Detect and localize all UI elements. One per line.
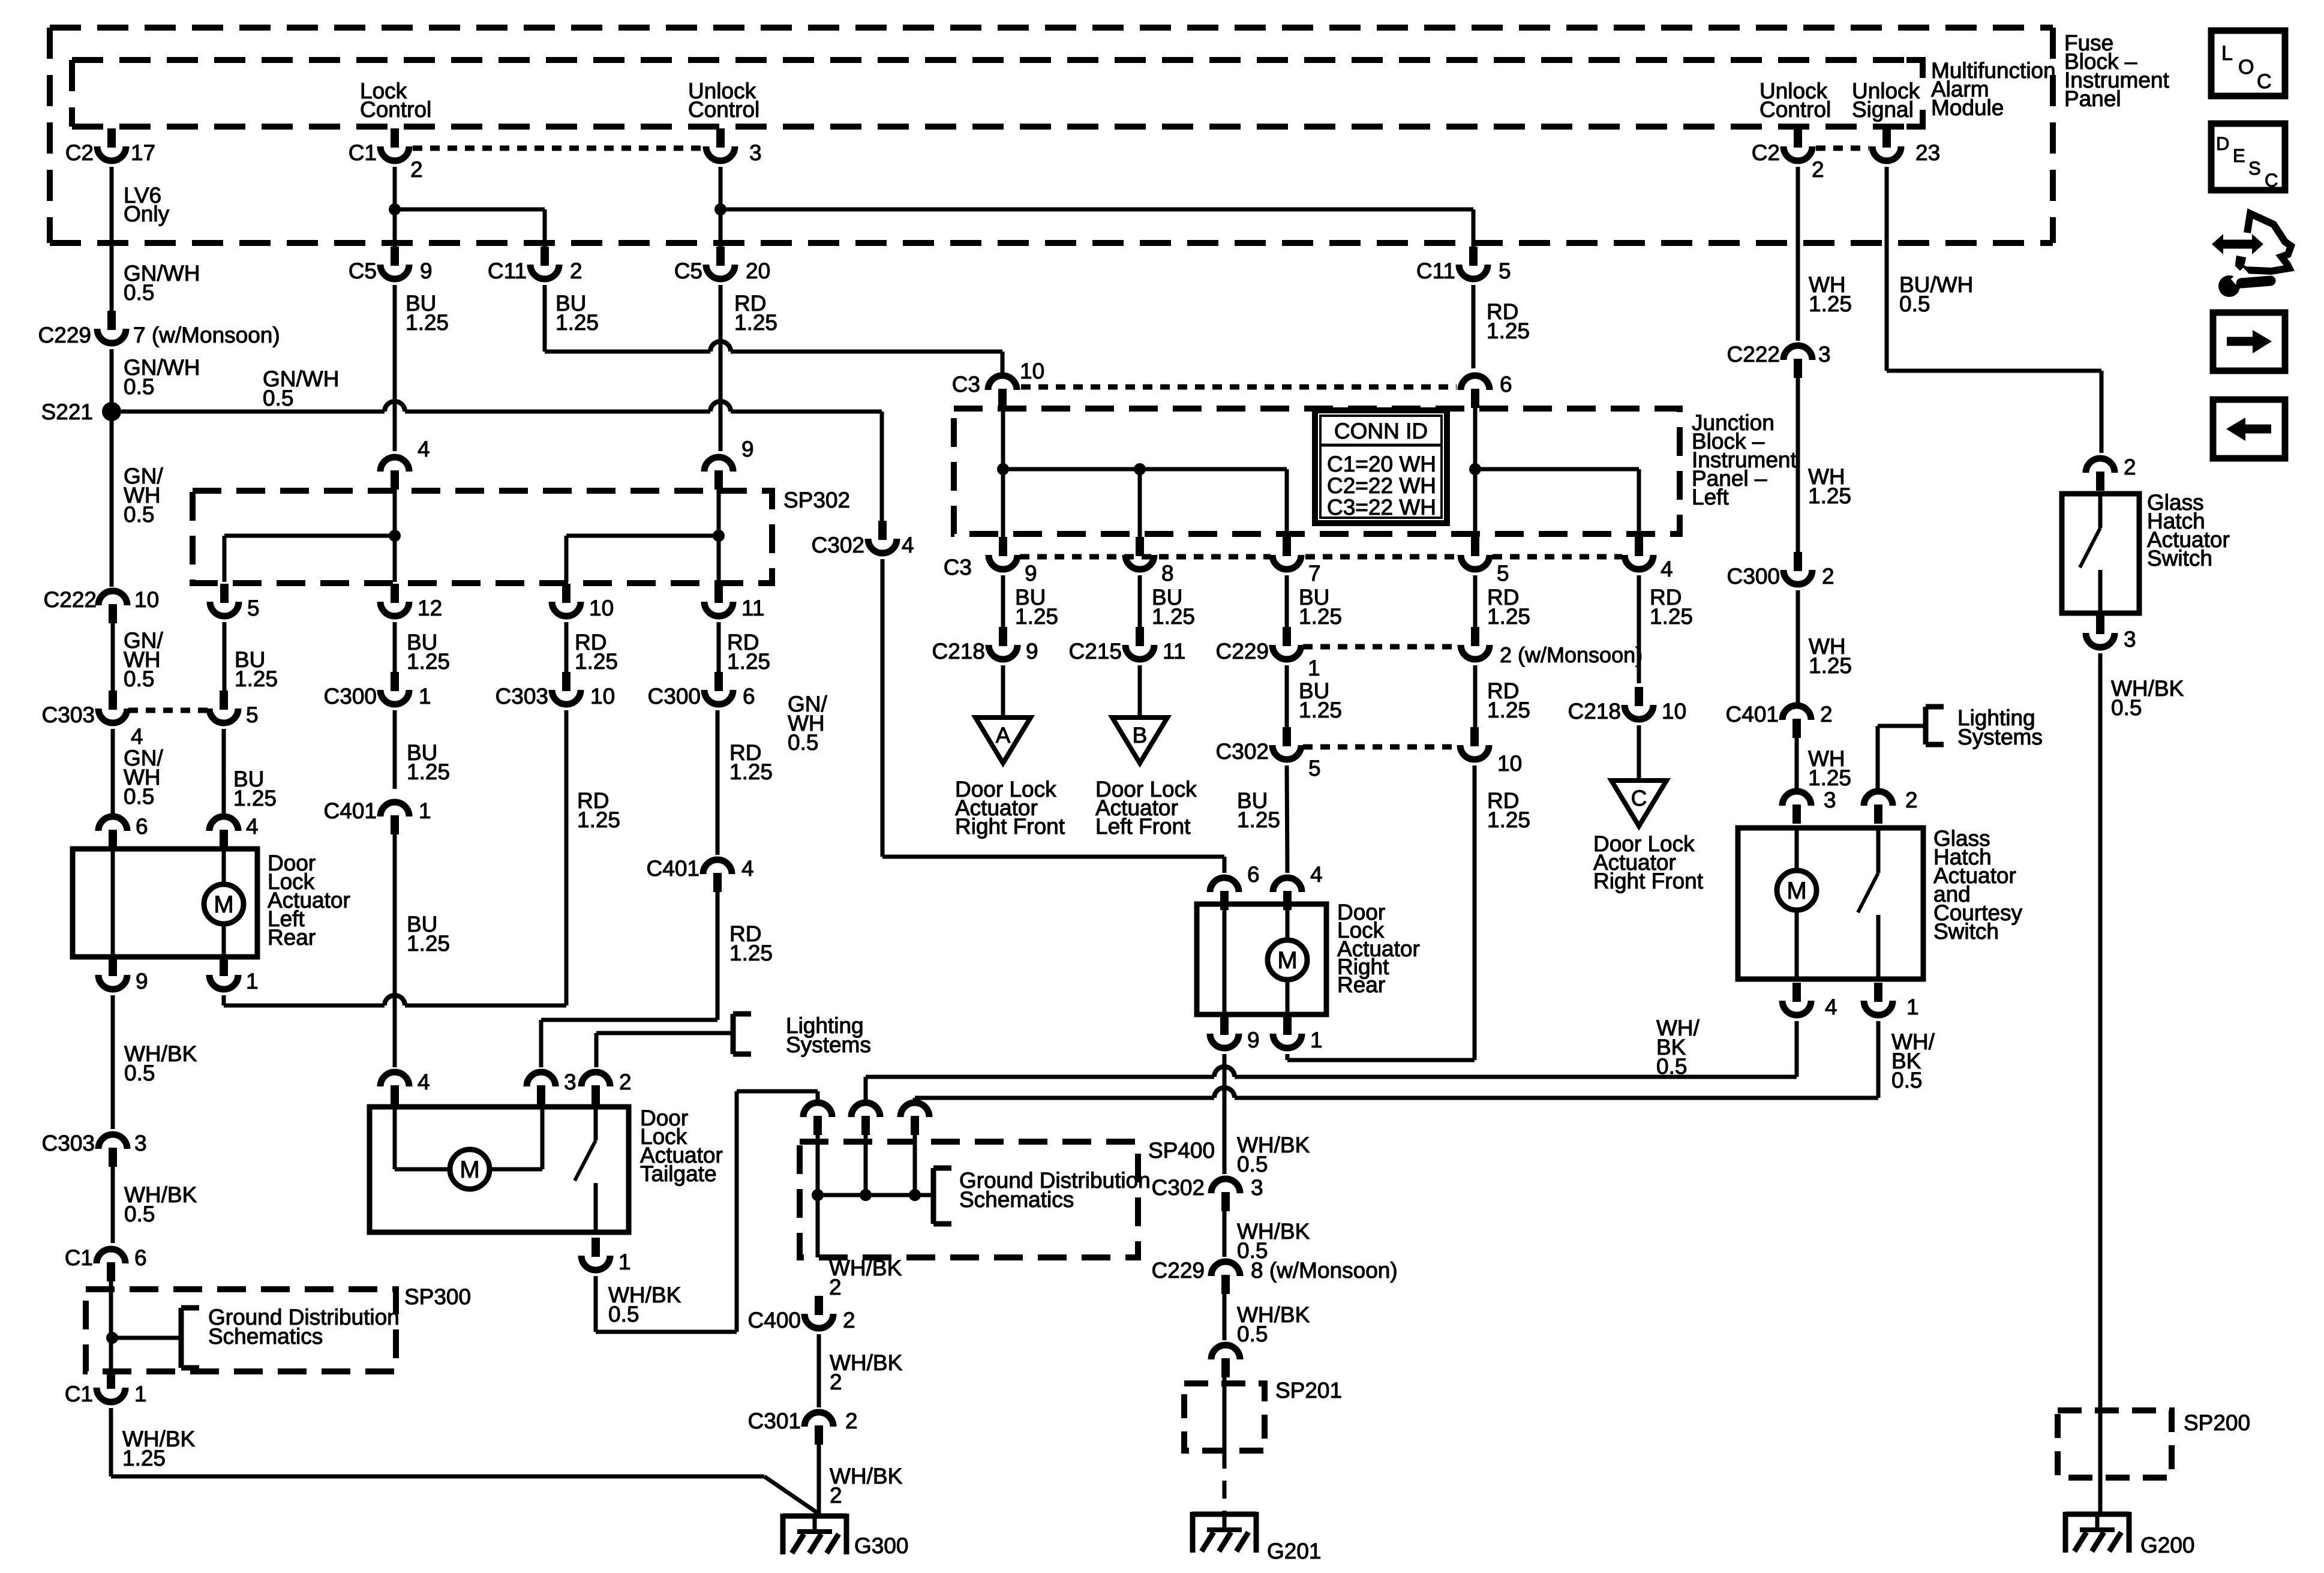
svg-text:Rear: Rear [1337, 972, 1385, 997]
SP400 dashed box [800, 1142, 1138, 1257]
tailgate switch blade [575, 1140, 596, 1181]
multifunction alarm module label [1931, 58, 2056, 120]
svg-text:9: 9 [1247, 1028, 1260, 1052]
ground G200 [2065, 1512, 2195, 1557]
left rear internal wire pin6-pin9 [111, 848, 115, 958]
svg-text:4: 4 [741, 856, 754, 881]
svg-text:1.25: 1.25 [1015, 604, 1058, 629]
svg-text:C2: C2 [65, 140, 94, 165]
svg-text:1.25: 1.25 [1152, 604, 1195, 629]
wire C401-2 to glass hatch pin 3 [1795, 738, 1799, 791]
svg-text:SP201: SP201 [1275, 1378, 1342, 1403]
svg-text:1.25: 1.25 [1487, 698, 1530, 722]
label WH/BK 0.5 (pin4) [1656, 1016, 1700, 1079]
label GN/WH 0.5 (1) [124, 261, 200, 305]
connector SP400 in 3 [900, 1103, 929, 1135]
wire hop at lock column [385, 401, 405, 412]
svg-text:0.5: 0.5 [263, 386, 293, 410]
svg-text:C215: C215 [1069, 639, 1122, 664]
connector C3 pin 9 [944, 537, 1037, 586]
connector glass hatch pin 4 [1782, 983, 1837, 1019]
wire hop at BU column [385, 995, 405, 1005]
connector SP302 pin 9 [704, 437, 754, 490]
svg-text:C301: C301 [748, 1409, 801, 1433]
svg-text:Schematics: Schematics [959, 1187, 1074, 1212]
label GN/WH 0.5 (5) [124, 746, 164, 809]
svg-text:1.25: 1.25 [1650, 604, 1693, 629]
svg-text:1.25: 1.25 [1487, 807, 1530, 832]
unlock control label (alarm module) [1759, 79, 1831, 122]
svg-text:C222: C222 [44, 587, 97, 612]
dotted connector line C2 [1816, 146, 1869, 151]
svg-text:3: 3 [1824, 788, 1836, 812]
door lock actuator left rear box [73, 849, 257, 957]
wire SP302-12 to C300-1 [393, 622, 397, 674]
bus hop upper [1214, 1067, 1235, 1077]
connector C222 pin 10 [44, 587, 160, 623]
connector C218 pin 9 [932, 627, 1038, 664]
connector tailgate pin 1 [581, 1238, 631, 1274]
svg-text:5: 5 [246, 703, 259, 727]
connector C2 pin 17 [65, 128, 155, 165]
wire C3-5 to C229-2 [1473, 575, 1478, 629]
motor M right rear [1268, 940, 1307, 980]
svg-text:5: 5 [247, 596, 260, 620]
svg-text:3: 3 [2124, 627, 2136, 652]
svg-text:4: 4 [1825, 995, 1837, 1019]
svg-text:1: 1 [1906, 995, 1919, 1019]
wire junction to C5-20 [719, 209, 723, 250]
svg-text:C2=22 WH: C2=22 WH [1327, 473, 1436, 498]
switch blade [2080, 528, 2100, 568]
svg-text:C: C [2265, 170, 2278, 191]
unlock signal label [1852, 79, 1920, 122]
wire C222-10 to C303-4 [111, 623, 115, 701]
svg-text:10: 10 [1662, 699, 1686, 724]
label GN/WH 0.5 (C302-4) [788, 692, 828, 755]
label WH/BK 0.5 (pin9a) [1237, 1133, 1310, 1176]
SP400 wire 1 through [816, 1135, 820, 1257]
connector tailgate pin 3 [527, 1070, 577, 1104]
label BU 1.25 (out12) [407, 630, 450, 674]
wire C1-2 down [393, 167, 397, 209]
wire C1-1 to G300 [111, 1408, 818, 1513]
svg-text:1.25: 1.25 [1299, 698, 1342, 722]
bus hop lower [1214, 1088, 1235, 1098]
SP300 junction dot [106, 1332, 118, 1344]
svg-text:0.5: 0.5 [608, 1302, 639, 1326]
glass hatch actuator switch label [2147, 490, 2230, 571]
label WH/BK 0.5 (pin1) [1891, 1029, 1935, 1092]
wire C229-2 to C302-10 [1473, 665, 1478, 730]
connector C303 pin 4 [42, 691, 143, 749]
wire C401-4 to tailgate pin 3 [541, 892, 717, 1067]
svg-text:Rear: Rear [268, 925, 316, 950]
wire S221 down to C222-10 [110, 412, 114, 587]
svg-text:Only: Only [124, 202, 170, 226]
svg-text:C300: C300 [648, 684, 701, 709]
svg-text:C401: C401 [647, 856, 699, 881]
connector right rear pin 9 [1210, 1016, 1260, 1052]
label RD 1.25 (C303-10) [577, 788, 620, 832]
svg-text:1.25: 1.25 [406, 310, 449, 335]
svg-text:M: M [1786, 878, 1806, 904]
wire C302-10 to right rear pin 1 [1287, 766, 1475, 1060]
wire SP200 to G200 [2098, 1410, 2103, 1514]
svg-text:C303: C303 [42, 1131, 95, 1155]
svg-text:8: 8 [1161, 561, 1174, 586]
wire C5-20 down to SP302 pin 9 [719, 285, 723, 451]
svg-text:G200: G200 [2140, 1533, 2195, 1557]
svg-text:Module: Module [1931, 95, 2004, 120]
wire left rear pin1 to corner [222, 995, 226, 1005]
left rear motor lead top [222, 848, 226, 884]
label RD 1.25 (colE) [1650, 585, 1693, 629]
svg-text:S221: S221 [41, 400, 93, 424]
svg-text:11: 11 [741, 596, 764, 620]
junction dot A [997, 463, 1009, 475]
svg-text:2: 2 [1905, 788, 1918, 812]
DESC icon box [2211, 124, 2285, 191]
svg-text:Signal: Signal [1852, 97, 1914, 122]
svg-text:1.25: 1.25 [1808, 766, 1851, 790]
junction dot on unlock wire [714, 203, 726, 215]
label GN/WH 0.5 (4) [124, 628, 164, 691]
wire C229-1 to C302-5 [1285, 665, 1289, 730]
svg-text:1.25: 1.25 [577, 807, 620, 832]
wire right rear pin9 down [1223, 1054, 1227, 1174]
wire C2-23 down [1885, 167, 1889, 371]
svg-text:0.5: 0.5 [124, 1061, 155, 1085]
connector C300 pin 1 [324, 672, 431, 709]
wire SP302-5 to C303-5 [223, 622, 227, 701]
ground G201 [1193, 1512, 1322, 1563]
wire C218-9 to triangle A [1001, 665, 1005, 719]
svg-text:1.25: 1.25 [556, 310, 599, 335]
svg-text:10: 10 [1497, 751, 1522, 776]
wire C5-9 down to SP302 pin 4 [393, 285, 397, 451]
ground distribution reference bracket (SP300) [181, 1308, 199, 1368]
connector SP302 out 11 [704, 584, 764, 620]
lighting systems label (glass hatch) [1957, 706, 2043, 749]
SP300 dashed box [86, 1289, 396, 1371]
connector C11 pin 5 [1416, 247, 1511, 283]
door lock actuator right rear box [1197, 904, 1326, 1014]
svg-text:1.25: 1.25 [1299, 604, 1342, 629]
svg-text:C222: C222 [1727, 342, 1780, 367]
wire hop at unlock column [710, 401, 731, 412]
LOC icon box [2211, 31, 2285, 96]
glass hatch motor lead bottom [1795, 910, 1799, 980]
off-page triangle B [1112, 718, 1167, 763]
connector C401 pin 2 [1726, 702, 1833, 738]
label WH 1.25 (C222-3) [1808, 464, 1851, 508]
label BU 1.25 (C5-9) [406, 291, 449, 335]
SP400 bus wire [818, 1193, 932, 1197]
tailgate motor lead left [395, 1106, 451, 1169]
wire C215-11 to triangle B [1138, 665, 1142, 719]
svg-text:2: 2 [570, 259, 582, 283]
label RD 1.25 (C11-5) [1487, 299, 1530, 343]
connector C401 pin 4 [647, 856, 754, 892]
svg-text:C1: C1 [65, 1245, 93, 1270]
unlock control label [688, 79, 759, 122]
wire C11-2 to C3-10 [545, 285, 1002, 376]
connector tailgate pin 4 [380, 1070, 430, 1104]
wire C2-2 down [1796, 167, 1800, 341]
svg-text:2: 2 [843, 1308, 855, 1332]
lighting systems label (tailgate) [786, 1013, 871, 1057]
svg-text:0.5: 0.5 [788, 730, 818, 755]
svg-text:1.25: 1.25 [729, 760, 773, 784]
svg-text:0.5: 0.5 [1656, 1054, 1687, 1079]
svg-text:C302: C302 [812, 533, 864, 557]
SP302 dashed box [193, 491, 772, 583]
svg-text:Schematics: Schematics [208, 1324, 323, 1349]
svg-text:0.5: 0.5 [1899, 292, 1930, 316]
svg-text:0.5: 0.5 [2111, 695, 2142, 720]
SP300 wire to reference [112, 1336, 180, 1340]
svg-text:C11: C11 [1416, 259, 1455, 283]
svg-text:1.25: 1.25 [235, 667, 278, 691]
svg-text:4: 4 [246, 814, 259, 839]
label WH 1.25 (C300-2) [1809, 634, 1852, 678]
ground G300 [783, 1514, 909, 1558]
SP400 junction dots [812, 1189, 921, 1201]
label WH/BK 0.5 (pin9) [124, 1041, 197, 1085]
connector left rear pin 4 [209, 814, 259, 849]
left rear motor lead bottom [222, 924, 226, 958]
label GN/WH 0.5 (horizontal) [263, 367, 339, 410]
svg-text:Right Front: Right Front [955, 814, 1065, 839]
svg-text:2: 2 [1812, 157, 1824, 182]
SP400 wire 2 [864, 1135, 868, 1195]
multifunction alarm module right corner brackets [1906, 57, 1923, 130]
connector SP302 out 10 [552, 584, 614, 620]
svg-text:2: 2 [1822, 564, 1834, 589]
ground distribution schematics label (SP400) [959, 1168, 1151, 1212]
connector C302 pin 10 [1460, 727, 1522, 776]
connector right rear pin 1 [1273, 1016, 1323, 1052]
svg-text:10: 10 [134, 587, 159, 612]
svg-text:Control: Control [360, 97, 431, 122]
label RD 1.25 (out10) [575, 630, 618, 674]
svg-text:1: 1 [419, 798, 431, 823]
label BU 1.25 (C300-1) [407, 740, 450, 784]
wire C3-9 to C218-9 [1001, 575, 1005, 629]
svg-text:C302: C302 [1216, 739, 1269, 764]
svg-text:10: 10 [589, 596, 614, 620]
label WH 1.25 (C401-2) [1808, 746, 1851, 790]
junction bus wire right [1475, 469, 1639, 539]
svg-text:1: 1 [134, 1382, 147, 1406]
svg-text:C300: C300 [324, 684, 377, 709]
off-page triangle C [1611, 781, 1667, 826]
svg-text:0.5: 0.5 [124, 502, 154, 527]
wire C303-3 to C1-6 [111, 1167, 115, 1243]
SP302 wire right branch [566, 536, 719, 582]
svg-text:Right Front: Right Front [1593, 869, 1704, 893]
label WH/BK 2 (mid) [830, 1350, 903, 1394]
label RD 1.25 (colD2) [1487, 679, 1530, 722]
svg-text:C229: C229 [38, 323, 91, 347]
ground distribution reference bracket (SP400) [933, 1168, 951, 1224]
svg-text:3: 3 [749, 140, 762, 165]
connector C5 pin 20 [674, 247, 770, 283]
connector left rear pin 9 [98, 957, 148, 993]
tailgate switch upper contact [594, 1106, 598, 1140]
wire C3-7 to C229-1 [1285, 575, 1289, 629]
glass hatch motor lead top [1795, 827, 1799, 870]
connector C2 pin 23 [1872, 128, 1940, 165]
dotted connector line C229 [1303, 644, 1458, 650]
junction dot D [1469, 463, 1481, 475]
svg-text:C3: C3 [952, 372, 980, 397]
svg-text:G201: G201 [1267, 1539, 1322, 1563]
connector C222 pin 3 [1727, 342, 1831, 378]
SP201 label [1275, 1378, 1342, 1403]
svg-text:9: 9 [741, 437, 754, 461]
svg-text:10: 10 [1020, 359, 1044, 383]
svg-text:S: S [2248, 158, 2261, 179]
svg-text:7: 7 [1308, 561, 1321, 586]
svg-text:SP300: SP300 [404, 1284, 471, 1309]
connector C229 pin 8 [1152, 1258, 1398, 1294]
lighting systems bracket (glass hatch) [1926, 707, 1944, 745]
label BU 1.25 (C11-2) [556, 291, 599, 335]
lock control label [360, 79, 431, 122]
door lock actuator tailgate box [370, 1107, 629, 1232]
connector C1 pin 3 [706, 128, 762, 165]
svg-text:4: 4 [131, 724, 143, 749]
svg-text:C400: C400 [748, 1308, 801, 1332]
svg-text:A: A [996, 723, 1011, 748]
door lock actuator right front label [955, 777, 1065, 839]
svg-text:O: O [2238, 56, 2254, 79]
svg-text:0.5: 0.5 [1237, 1322, 1268, 1346]
splice S221 [41, 400, 121, 424]
wire SP302-11 to C300-6 [717, 622, 721, 674]
connector C11 pin 2 [488, 247, 582, 283]
svg-text:M: M [1277, 947, 1297, 974]
svg-text:SP400: SP400 [1148, 1138, 1215, 1163]
conn id table [1315, 410, 1447, 523]
svg-text:Left: Left [1692, 485, 1729, 509]
svg-text:M: M [460, 1157, 479, 1183]
wire vertical to C303-10 [565, 710, 569, 1005]
svg-text:C1=20 WH: C1=20 WH [1327, 452, 1436, 476]
junction wire C3-10 through [1001, 407, 1005, 539]
previous page arrow icon [2213, 400, 2285, 458]
connector glass hatch pin 3 top [1782, 788, 1836, 824]
connector C400 pin 2 [748, 1296, 855, 1332]
svg-text:1: 1 [246, 969, 259, 993]
connector SP400 in 1 [803, 1103, 832, 1135]
wire lighting to tailgate pin 2 [596, 1033, 731, 1067]
wire C302-5 to right rear pin 4 [1287, 766, 1287, 873]
svg-text:1: 1 [419, 684, 431, 709]
glass hatch switch lower contact [1876, 915, 1881, 980]
junction wire pin6 through [1473, 407, 1478, 539]
connector C229 pin 2 w/Monsoon [1461, 627, 1643, 667]
wire C3-8 to C215-11 [1138, 575, 1142, 629]
svg-text:2 (w/Monsoon): 2 (w/Monsoon) [1500, 643, 1643, 667]
wire hop at unlock column (BU wire) [710, 341, 731, 352]
svg-text:1.25: 1.25 [729, 941, 773, 965]
svg-text:6: 6 [134, 1245, 147, 1270]
wire C302-4 down [881, 559, 885, 857]
svg-text:Left Front: Left Front [1095, 814, 1191, 839]
label BU 1.25 (C401-1) [407, 912, 450, 956]
wire BU/WH to switch pin 2 [1887, 371, 2101, 453]
connector C5 pin 9 [349, 247, 433, 283]
svg-text:Tailgate: Tailgate [640, 1161, 717, 1186]
wire C300-6 to C401-4 [716, 710, 720, 855]
svg-text:2: 2 [830, 1370, 842, 1394]
SP200 dashed box [2058, 1410, 2172, 1478]
connector SP302 pin 4 [380, 437, 430, 490]
label WH/BK 2 (above C400) [829, 1256, 902, 1299]
label WH/BK 2 (low) [830, 1464, 903, 1508]
svg-text:1.25: 1.25 [407, 931, 450, 956]
svg-text:2: 2 [829, 1275, 842, 1299]
wire pin1 horizontal run [224, 1004, 566, 1008]
svg-text:Switch: Switch [1933, 919, 1999, 944]
svg-text:1: 1 [618, 1250, 631, 1274]
door lock actuator right front label (C) [1593, 831, 1704, 893]
wire C2-17 to C229-7 [110, 167, 114, 311]
svg-text:Control: Control [688, 97, 759, 122]
svg-text:5: 5 [1499, 259, 1511, 283]
switch lower contact [2098, 570, 2103, 614]
label WH/BK 0.5 (switch) [2111, 676, 2184, 720]
wire branch to C11-2 [395, 209, 545, 250]
wire C303-5 to left rear pin 4 [222, 729, 226, 818]
SP302 wire pin9 through [717, 490, 721, 582]
label BU 1.25 (C303-5) [233, 767, 277, 810]
svg-text:L: L [2221, 42, 2233, 65]
svg-text:G300: G300 [854, 1533, 909, 1558]
junction dot on lock wire [389, 203, 401, 215]
connector left rear pin 1 [209, 957, 259, 993]
connector C229 pin 1 [1216, 627, 1320, 680]
connector C301 pin 2 [748, 1409, 858, 1445]
connector SP302 out 5 [210, 584, 260, 620]
svg-text:C: C [2257, 70, 2272, 93]
svg-text:17: 17 [131, 140, 155, 165]
connector glass hatch pin 1 [1864, 983, 1919, 1019]
svg-text:2: 2 [619, 1070, 632, 1094]
svg-text:1.25: 1.25 [1809, 292, 1852, 316]
ground distribution schematics label (SP300) [208, 1305, 400, 1349]
connector C1 pin 1 [65, 1370, 147, 1406]
svg-text:5: 5 [1497, 561, 1509, 586]
svg-text:9: 9 [1026, 639, 1038, 664]
svg-text:B: B [1133, 723, 1148, 748]
junction bus wire left [1003, 469, 1287, 539]
multifunction alarm module dashed box [72, 60, 1923, 127]
svg-text:6: 6 [1500, 372, 1512, 397]
connector glass hatch pin 2 top [1864, 788, 1918, 824]
svg-text:3: 3 [134, 1131, 147, 1155]
svg-text:C218: C218 [1568, 699, 1621, 724]
connector C302 pin 4 [812, 521, 914, 557]
svg-text:CONN ID: CONN ID [1334, 419, 1428, 443]
svg-text:C303: C303 [496, 684, 548, 709]
label GN/WH 0.5 (2) [124, 355, 200, 399]
junction block label [1692, 410, 1797, 509]
wire C3-4 to C218-10 [1637, 575, 1641, 683]
